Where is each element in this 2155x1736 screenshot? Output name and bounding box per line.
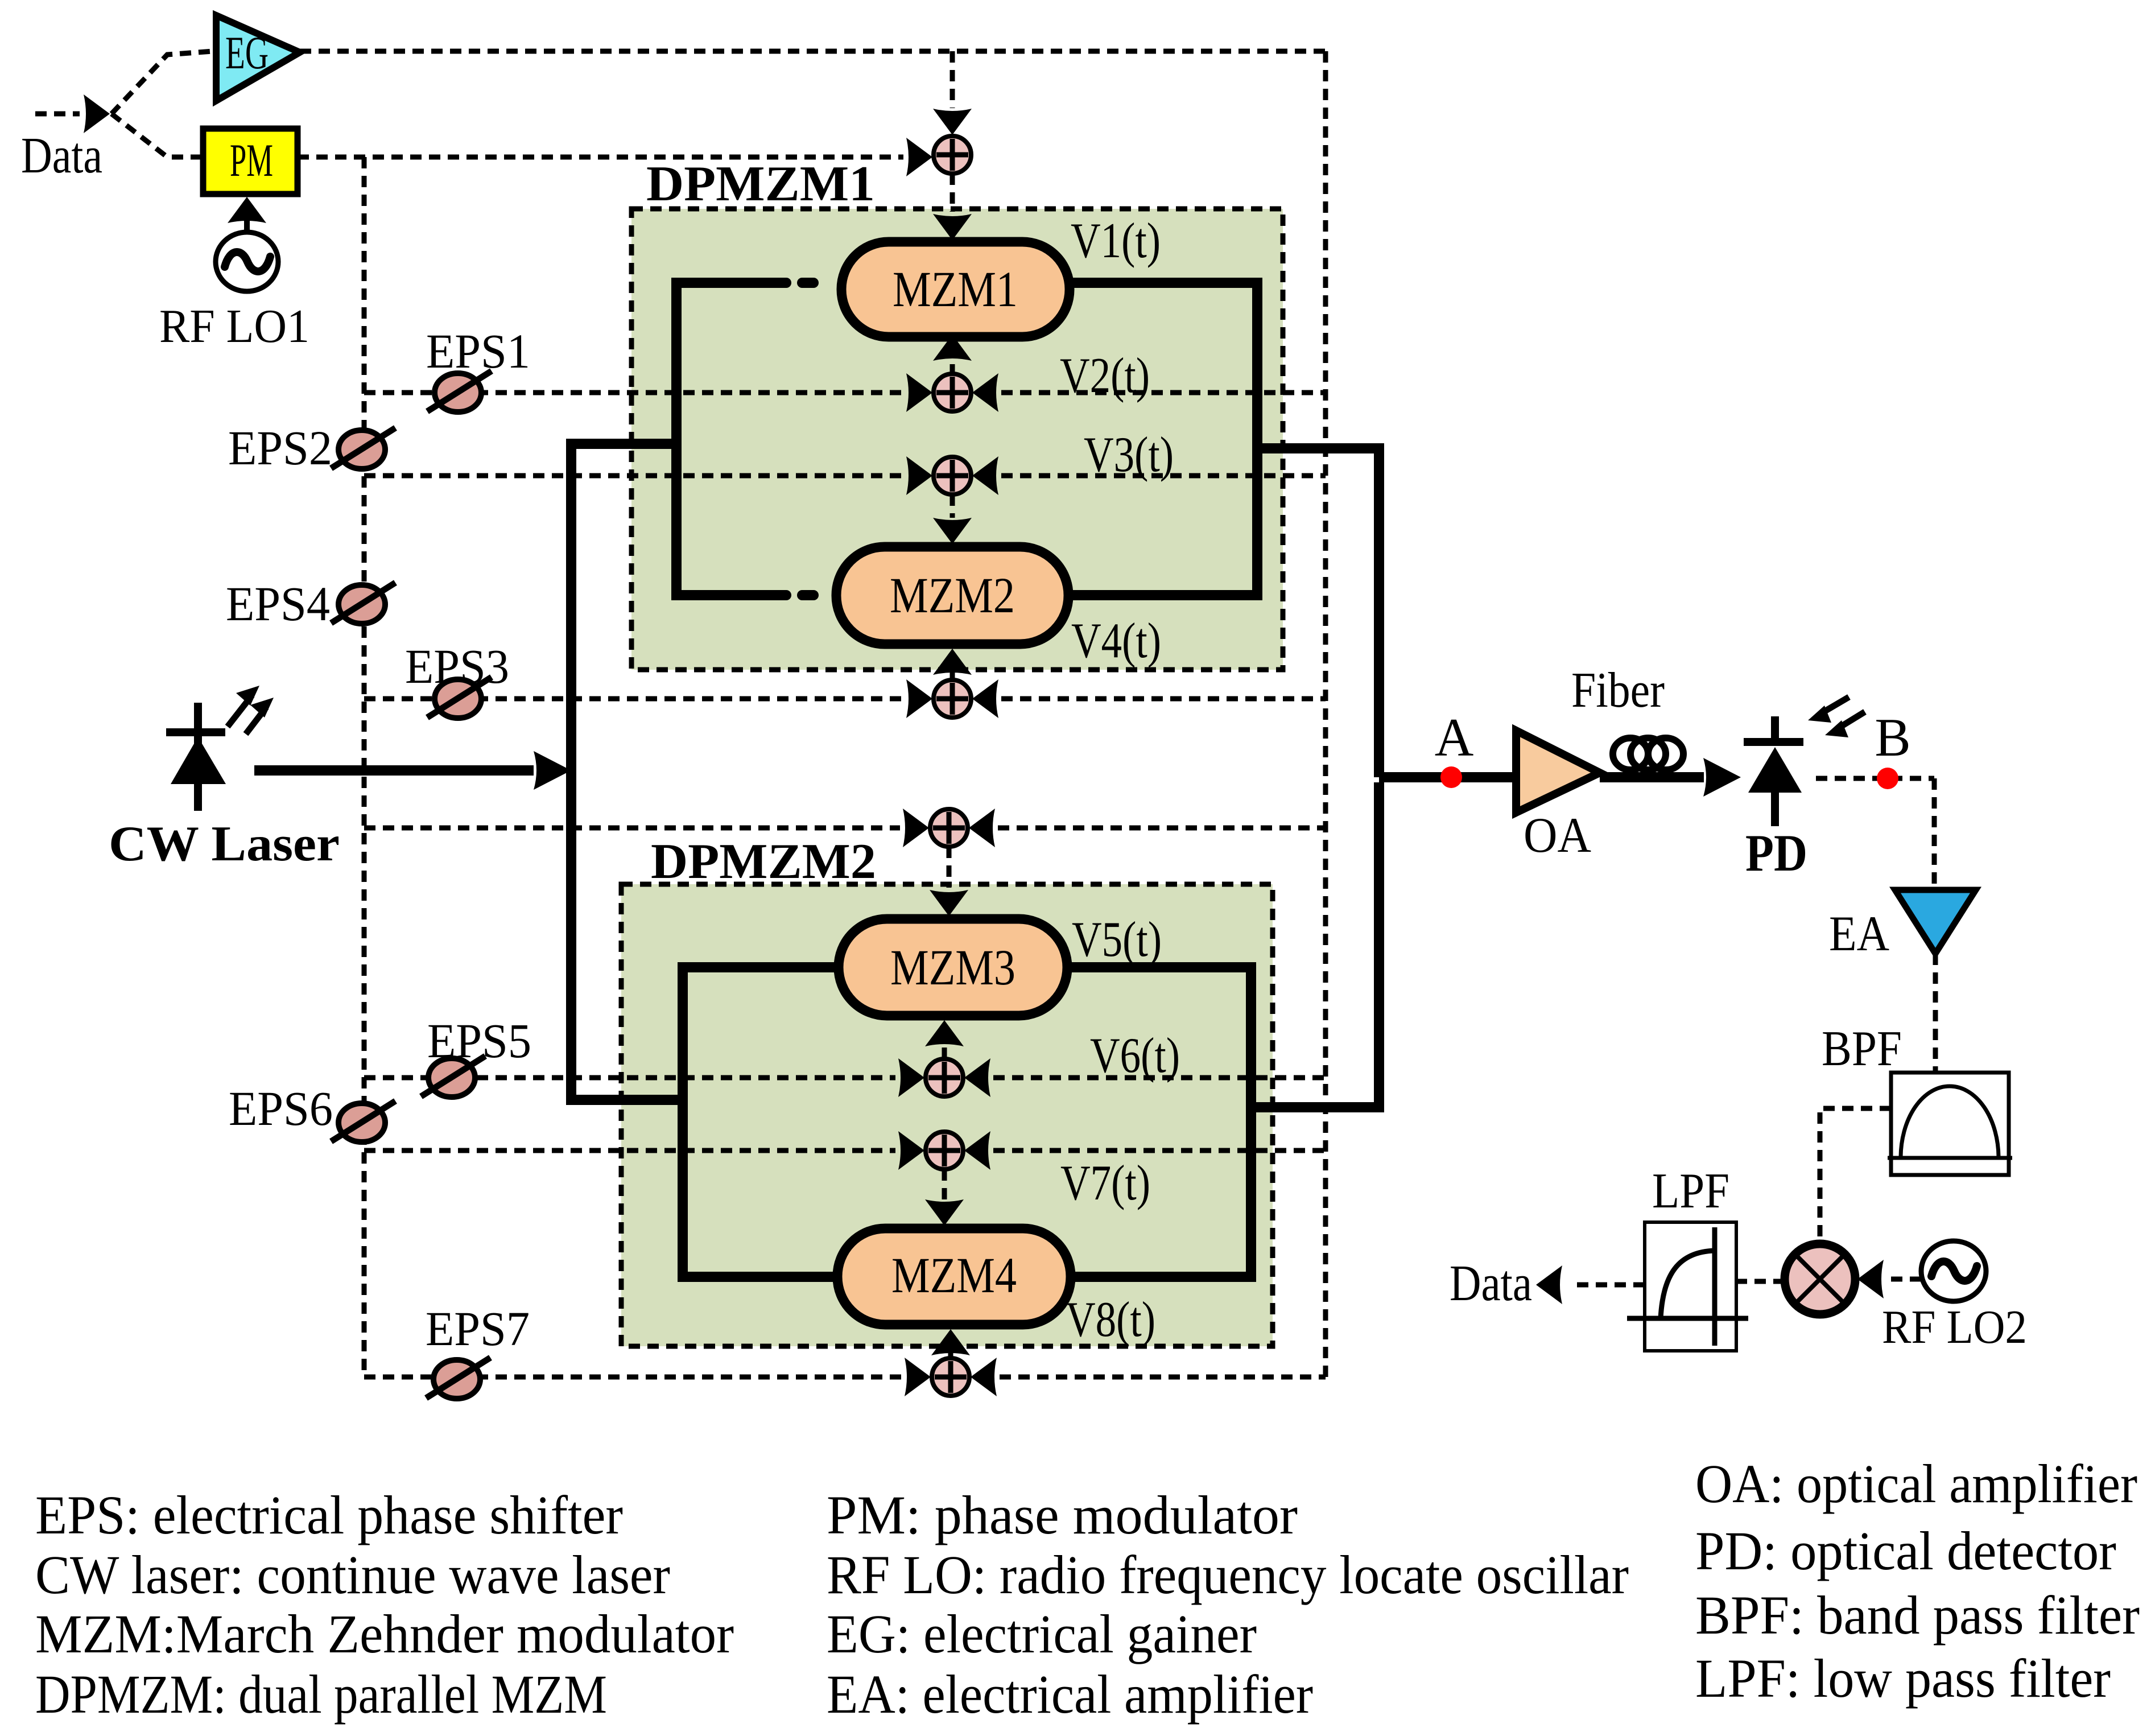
svg-text:PM: PM <box>230 134 273 186</box>
svg-text:Data: Data <box>21 127 102 184</box>
wire: DPMZM1 input stem <box>566 283 676 444</box>
svg-text:DPMZM: dual parallel MZM: DPMZM: dual parallel MZM <box>35 1664 607 1725</box>
wire: DPMZM1 left Y vertical <box>671 278 682 600</box>
svg-text:A: A <box>1435 707 1474 768</box>
wire: RF LO1 to PM dashed arrow <box>244 216 250 230</box>
svg-text:PD: optical detector: PD: optical detector <box>1695 1520 2116 1581</box>
DPMZM2 box <box>621 884 1273 1346</box>
svg-text:V7(t): V7(t) <box>1060 1156 1150 1211</box>
wire: EPS2 / V3 line <box>364 473 903 479</box>
svg-text:Data: Data <box>1450 1255 1532 1312</box>
wire: V2 right feed <box>1001 390 1326 395</box>
svg-text:EPS3: EPS3 <box>405 639 509 694</box>
svg-text:BPF: band pass filter: BPF: band pass filter <box>1695 1585 2140 1646</box>
wire: input branch vertical solid <box>566 439 576 1105</box>
svg-text:MZM1: MZM1 <box>893 262 1018 317</box>
wire: V8 adder output into MZM4 bottom <box>948 1351 953 1358</box>
wire: MZM2 right connector <box>1067 590 1262 600</box>
wire: LPF output to Data <box>1570 1283 1645 1288</box>
adder V3 <box>934 457 971 494</box>
svg-text:MZM3: MZM3 <box>890 940 1015 996</box>
wire: MZM3 right connector <box>1065 962 1256 972</box>
wire: EPS5 / V6 line <box>364 1075 895 1081</box>
modulator MZM2 <box>836 547 1068 644</box>
phase shifter EPS2 <box>331 428 395 469</box>
svg-text:EPS: electrical phase shifter: EPS: electrical phase shifter <box>35 1485 623 1545</box>
wire: DPMZM2 right Y vertical <box>1246 962 1256 1282</box>
wire: split diagonal up to EG <box>112 51 213 114</box>
svg-text:CW Laser: CW Laser <box>109 817 340 872</box>
filter LPF <box>1627 1222 1748 1351</box>
adder V7 <box>926 1132 963 1169</box>
adder V8 <box>932 1358 969 1396</box>
svg-text:MZM2: MZM2 <box>890 568 1015 624</box>
wire: V5 line <box>364 826 900 831</box>
svg-text:EA: electrical amplifier: EA: electrical amplifier <box>827 1664 1313 1725</box>
modulator MZM1 <box>841 242 1070 337</box>
wire: EPS7 / V8 bottom line <box>364 1375 902 1380</box>
svg-text:OA: OA <box>1524 808 1591 863</box>
wire: MZM1 right connector <box>1068 278 1262 288</box>
svg-text:OA: optical amplifier: OA: optical amplifier <box>1695 1453 2137 1514</box>
wire: V8 right feed <box>1000 1375 1326 1380</box>
svg-text:RF LO2: RF LO2 <box>1882 1301 2027 1354</box>
wire: split diagonal down to PM <box>112 114 203 157</box>
svg-text:LPF: LPF <box>1652 1164 1729 1219</box>
svg-text:EPS1: EPS1 <box>426 324 530 378</box>
point A red dot <box>1440 766 1462 788</box>
svg-text:V1(t): V1(t) <box>1071 213 1161 269</box>
wire: combined output line to OA <box>1379 772 1516 782</box>
svg-text:Fiber: Fiber <box>1571 663 1665 718</box>
wire: V2 adder output into MZM1 bottom <box>950 364 955 374</box>
svg-text:MZM:March Zehnder modulator: MZM:March Zehnder modulator <box>35 1603 734 1664</box>
svg-text:RF LO: radio frequency locate: RF LO: radio frequency locate oscillar <box>827 1544 1629 1605</box>
wire: DPMZM2 left Y vertical <box>678 962 688 1282</box>
DPMZM1 box <box>631 209 1283 670</box>
mixer <box>1785 1244 1855 1314</box>
wire: right outer vertical <box>1323 51 1328 1377</box>
wire: CW laser output solid <box>254 765 534 776</box>
wire: OA to PD solid with arrow <box>1600 772 1704 782</box>
svg-text:V3(t): V3(t) <box>1084 427 1174 483</box>
wire: V1 adder output into MZM1 <box>950 174 955 212</box>
wire: MZM4 right connector <box>1068 1272 1256 1282</box>
wire: DPMZM2 output stem <box>1251 782 1379 1107</box>
svg-text:PD: PD <box>1745 824 1807 882</box>
phase shifter EPS5 <box>421 1056 485 1097</box>
wire: B down to EA <box>1932 778 1937 888</box>
wire: MZM3 left connector <box>683 962 841 972</box>
adder V4 <box>934 680 971 718</box>
svg-text:B: B <box>1875 707 1910 768</box>
filter BPF <box>1888 1073 2012 1175</box>
modulator MZM4 <box>837 1228 1071 1325</box>
svg-text:DPMZM1: DPMZM1 <box>646 156 875 212</box>
svg-text:EG: electrical gainer: EG: electrical gainer <box>827 1603 1257 1664</box>
svg-text:V2(t): V2(t) <box>1060 348 1150 403</box>
fiber coil <box>1613 738 1683 770</box>
svg-text:BPF: BPF <box>1822 1021 1902 1077</box>
wire: V5 adder output into MZM3 top <box>947 847 952 888</box>
wire: EPS3 / V4 line <box>364 696 903 702</box>
svg-text:MZM4: MZM4 <box>891 1248 1017 1304</box>
wire: V3 adder output into MZM2 top <box>950 494 955 518</box>
wire: Data input dashed <box>35 112 80 117</box>
laser CW Laser diode <box>166 686 274 811</box>
wire: DPMZM2 input stem <box>566 967 683 1100</box>
phase shifter EPS6 <box>331 1101 395 1142</box>
svg-text:PM: phase modulator: PM: phase modulator <box>827 1485 1298 1545</box>
wire: mixer output to LPF <box>1736 1279 1785 1284</box>
svg-text:EPS4: EPS4 <box>226 576 330 631</box>
photodiode PD <box>1744 697 1865 826</box>
adder V2 <box>934 374 971 411</box>
svg-text:CW laser: continue wave laser: CW laser: continue wave laser <box>35 1544 670 1605</box>
wire: MZM2 left connector <box>676 590 786 600</box>
phase shifter EPS3 <box>427 677 492 718</box>
svg-text:EG: EG <box>225 27 269 79</box>
wire: V6 right feed <box>993 1075 1326 1081</box>
wire: DPMZM1 output stem <box>1257 448 1379 777</box>
svg-text:V6(t): V6(t) <box>1090 1028 1180 1083</box>
adder V5 <box>930 809 968 847</box>
wire: EG output top line <box>300 49 1326 54</box>
svg-text:EPS5: EPS5 <box>427 1013 531 1068</box>
wire: EA down to BPF <box>1933 954 1938 1073</box>
wire: V7 adder output into MZM4 top <box>942 1169 947 1201</box>
wire: MZM4 left connector <box>683 1272 840 1282</box>
oscillator RF LO1 <box>216 232 278 291</box>
wire: RF LO2 to mixer dashed arrow <box>1890 1277 1921 1282</box>
point B red dot <box>1877 768 1898 789</box>
wire: BPF output to mixer <box>1820 1108 1891 1239</box>
phase shifter EPS1 <box>427 371 492 412</box>
wire: left distribution vertical <box>362 157 367 1377</box>
wire: PM output to V1 adder <box>298 155 903 160</box>
adder V6 <box>926 1059 963 1096</box>
wire: V6 adder output into MZM3 bottom <box>942 1047 947 1059</box>
wire: MZM2 left connector nub <box>802 590 814 600</box>
adder V1 <box>934 136 971 174</box>
wire: EPS6 / V7 line <box>364 1148 895 1153</box>
amplifier EG <box>216 15 300 101</box>
oscillator RF LO2 <box>1921 1241 1986 1301</box>
svg-text:V8(t): V8(t) <box>1066 1292 1155 1347</box>
wire: EPS1 / V2 line <box>364 390 903 395</box>
svg-text:EA: EA <box>1829 906 1889 962</box>
svg-text:EPS2: EPS2 <box>228 420 332 475</box>
wire: V4 right feed <box>1001 696 1326 702</box>
wire: PD output dashed to B <box>1816 776 1934 781</box>
phase shifter EPS7 <box>426 1358 490 1399</box>
wire: V4 adder output into MZM2 bottom <box>950 670 955 680</box>
amplifier OA <box>1516 731 1600 813</box>
wire: EG branch down to V1 adder <box>950 51 955 108</box>
wire: MZM1 left connector nub <box>802 278 814 288</box>
wire: DPMZM1 right Y vertical <box>1252 278 1262 600</box>
amplifier EA <box>1895 890 1976 954</box>
phase modulator PM <box>203 129 298 194</box>
wire: V5 right feed <box>998 826 1326 831</box>
wire: MZM1 left connector <box>676 278 786 288</box>
svg-text:LPF: low pass filter: LPF: low pass filter <box>1695 1648 2111 1709</box>
wire: V3 right feed <box>1001 473 1326 479</box>
svg-text:DPMZM2: DPMZM2 <box>651 834 876 889</box>
svg-text:V5(t): V5(t) <box>1072 912 1162 967</box>
phase shifter EPS4 <box>331 583 395 624</box>
svg-text:V4(t): V4(t) <box>1071 613 1161 669</box>
svg-text:EPS6: EPS6 <box>229 1081 333 1136</box>
modulator MZM3 <box>839 919 1067 1016</box>
svg-text:RF LO1: RF LO1 <box>159 300 309 353</box>
svg-text:EPS7: EPS7 <box>426 1301 530 1356</box>
wire: V7 right feed <box>993 1148 1326 1153</box>
